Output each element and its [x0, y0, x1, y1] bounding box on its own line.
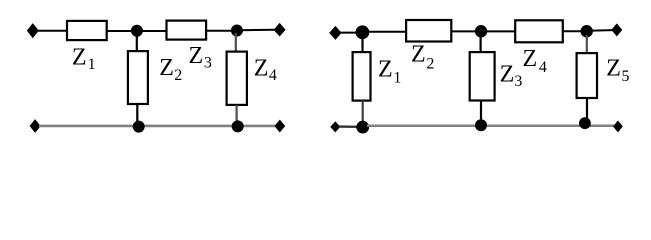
svg-text:Z: Z — [500, 61, 515, 87]
wire: node B down to Z4 (gray stub) — [235, 33, 237, 52]
impedance box Z4 (series), circuit 2 — [515, 20, 563, 42]
label Z4, circuit 2 — [523, 46, 547, 76]
wire: Z5 down to bottom node E2 — [586, 98, 588, 120]
svg-text:4: 4 — [539, 59, 547, 76]
label Z5, circuit 2 — [606, 55, 629, 85]
svg-text:5: 5 — [622, 68, 630, 85]
label Z4 — [254, 56, 277, 85]
node B (top junction 2), circuit 1 — [231, 25, 243, 37]
impedance box Z4 (shunt), circuit 1 — [227, 52, 247, 105]
wire: Z2 to node D — [451, 30, 477, 32]
impedance box Z2 (series), circuit 2 — [406, 20, 451, 42]
svg-text:2: 2 — [174, 67, 182, 84]
wire: node C down to Z1 — [361, 36, 363, 53]
impedance box Z3 (series), circuit 1 — [167, 21, 207, 40]
wire: Z3 to node B — [206, 30, 233, 32]
node E2 (bottom junction 3), circuit 2 — [579, 117, 591, 129]
node D2 (bottom junction 2), circuit 2 — [475, 119, 487, 131]
svg-text:2: 2 — [426, 55, 434, 72]
svg-text:Z: Z — [159, 55, 174, 81]
svg-text:Z: Z — [378, 57, 393, 83]
wire: input terminal to node C — [340, 32, 358, 34]
node C2 (bottom junction 1), circuit 2 — [356, 121, 369, 134]
label Z1 — [72, 44, 96, 73]
svg-text:1: 1 — [393, 70, 401, 87]
node C (top junction 1), circuit 2 — [356, 25, 370, 39]
svg-text:Z: Z — [523, 46, 538, 72]
node B2 (bottom junction 2), circuit 1 — [232, 120, 244, 132]
node A (top junction 1), circuit 1 — [131, 25, 143, 37]
wire: terminal to node C2 (dark segment) — [339, 125, 358, 128]
wire: node E to output terminal — [592, 29, 613, 32]
svg-text:3: 3 — [514, 73, 522, 90]
terminal diamond, circuit 2 bottom-right — [613, 121, 623, 133]
output terminal diamond, circuit 2 top-right — [611, 23, 622, 36]
node A2 (bottom junction 1), circuit 1 — [133, 121, 145, 133]
wire: node A down to Z2 — [136, 33, 138, 52]
terminal diamond, circuit 1 bottom-right — [274, 120, 285, 133]
wire: node E down to Z5 (gray stub) — [586, 35, 588, 54]
input terminal diamond, circuit 2 top-left — [329, 26, 341, 40]
wire: Z1 to node A — [107, 30, 134, 32]
svg-text:Z: Z — [411, 42, 426, 68]
wire: Z2 down to bottom node A2 — [136, 104, 138, 124]
svg-text:Z: Z — [72, 44, 87, 70]
wire: Z4 to node E — [563, 30, 583, 32]
wire: node A to Z3 — [140, 30, 167, 32]
wire: Z3 down to bottom node D2 — [480, 101, 482, 123]
label Z2, circuit 2 — [411, 42, 434, 73]
wire: Z1 down to bottom node C2 (dark stub) — [362, 101, 364, 124]
svg-text:3: 3 — [204, 54, 212, 71]
svg-text:1: 1 — [88, 56, 96, 73]
wire: bottom rail, circuit 2 — [367, 124, 614, 127]
label Z3 — [189, 43, 212, 72]
wire: bottom rail, circuit 1 — [39, 125, 275, 128]
wire: node D down to Z3 — [480, 35, 482, 53]
impedance box Z2 (shunt), circuit 1 — [128, 51, 148, 104]
input terminal diamond, circuit 1 top-left — [27, 23, 39, 38]
impedance box Z1 (shunt), circuit 2 — [353, 52, 371, 101]
wire: node C to Z2 — [367, 31, 407, 33]
svg-text:Z: Z — [254, 56, 269, 82]
wire: node B to output terminal — [241, 29, 275, 31]
wire: Z4 down to bottom node B2 (gray stub) — [236, 105, 238, 124]
node D (top junction 2), circuit 2 — [475, 25, 487, 37]
wire: node D to Z4 — [486, 30, 516, 32]
label Z1, circuit 2 — [378, 57, 401, 87]
wire: input terminal to Z1 — [38, 30, 68, 32]
label Z3, circuit 2 — [500, 61, 523, 90]
impedance box Z1 (series), circuit 1 — [67, 21, 107, 40]
output terminal diamond, circuit 1 top-right — [274, 23, 286, 37]
impedance box Z3 (shunt), circuit 2 — [470, 52, 495, 100]
terminal diamond, circuit 2 bottom-left — [330, 121, 340, 132]
node E (top junction 3), circuit 2 — [581, 25, 593, 37]
label Z2 — [159, 55, 182, 84]
svg-text:Z: Z — [189, 43, 204, 69]
svg-text:Z: Z — [606, 55, 621, 81]
impedance box Z5 (shunt), circuit 2 — [577, 53, 597, 98]
svg-text:4: 4 — [269, 67, 277, 84]
ground terminal diamond, circuit 1 bottom-left — [30, 119, 41, 133]
